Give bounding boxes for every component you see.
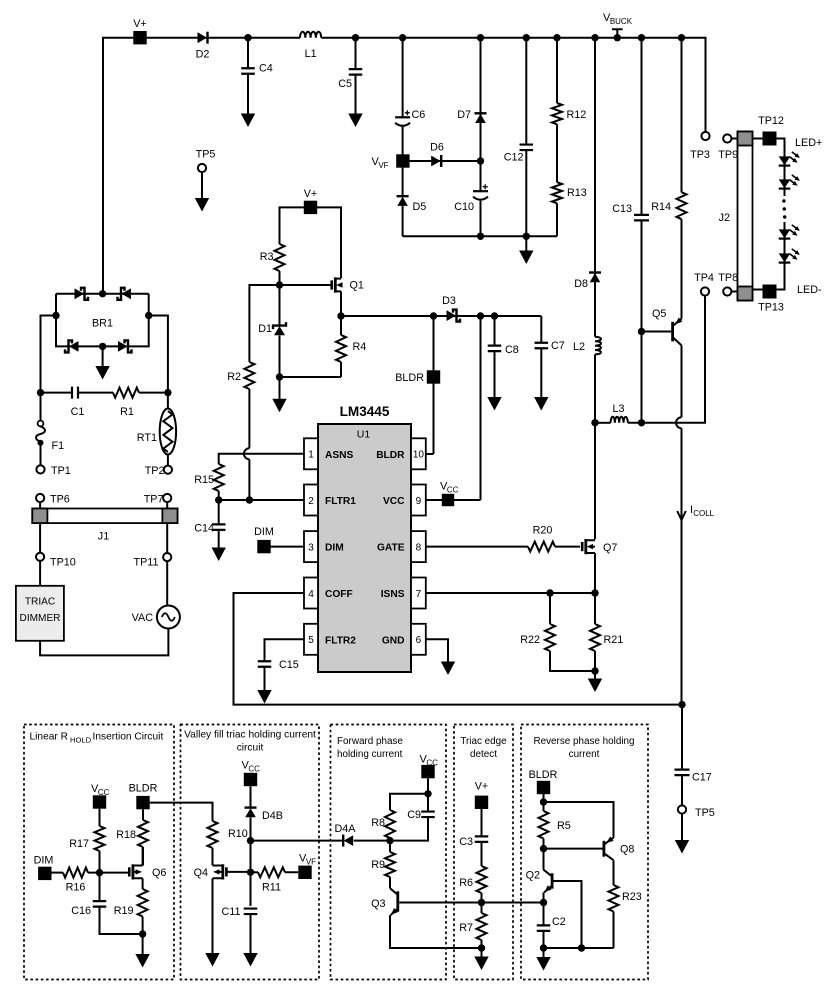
node C4 junction <box>244 34 251 41</box>
ground <box>348 114 362 128</box>
resistor R22 <box>549 593 551 624</box>
node COFF rail junction <box>678 701 685 708</box>
svg-text:C1: C1 <box>71 406 85 418</box>
node ground junction <box>478 944 485 951</box>
wire Q1 gate <box>280 284 332 286</box>
svg-text:TP11: TP11 <box>133 557 158 569</box>
wire GND pin6 <box>426 639 448 661</box>
wire R2 with hop over ASNS wire <box>248 389 250 448</box>
net BLDR <box>537 781 550 794</box>
resistor R2 <box>249 285 279 362</box>
svg-text:DIM: DIM <box>254 526 274 538</box>
svg-text:CC: CC <box>248 764 260 773</box>
node C5 junction <box>352 34 359 41</box>
svg-text:Valley fill triac holding curr: Valley fill triac holding current <box>184 730 316 741</box>
led D102 <box>779 179 791 188</box>
node L3 right junction <box>638 419 645 426</box>
svg-text:R14: R14 <box>651 201 671 213</box>
svg-text:4: 4 <box>308 589 314 600</box>
capacitor C12 <box>525 38 527 251</box>
node BLDR junction <box>430 312 437 319</box>
ground <box>519 251 533 265</box>
resistor R4 <box>340 291 342 335</box>
box Linear RHOLD Insertion Circuit <box>24 725 174 980</box>
svg-text:TP9: TP9 <box>718 149 738 161</box>
svg-text:TP10: TP10 <box>50 557 76 569</box>
test point TP13 <box>763 285 777 299</box>
net VVF <box>396 154 409 167</box>
svg-text:R3: R3 <box>260 251 274 263</box>
capacitor C14 <box>212 524 226 530</box>
svg-text:C4: C4 <box>259 63 273 75</box>
diode D5 <box>397 195 409 197</box>
svg-text:TP12: TP12 <box>758 115 784 127</box>
node Q8 base junction <box>540 845 547 852</box>
wire <box>753 222 785 290</box>
wire <box>753 139 785 197</box>
wire COFF pin4 runner <box>234 593 683 705</box>
resistor R17 <box>99 809 101 826</box>
svg-text:D3: D3 <box>442 295 456 307</box>
svg-text:C16: C16 <box>71 905 91 917</box>
pin box 2 <box>304 485 318 516</box>
capacitor C2 <box>537 925 551 931</box>
wire Q2 base <box>553 881 581 948</box>
diode D8 <box>594 38 596 337</box>
node BLDR junction <box>543 794 545 811</box>
transistor Q3 (NPN) <box>396 891 399 911</box>
wire Q8 base <box>544 848 603 850</box>
svg-text:1: 1 <box>308 450 314 461</box>
wire Q5 collector with hop over L3 wire <box>681 345 683 417</box>
resistor R3 <box>275 244 285 271</box>
ground <box>681 814 683 840</box>
resistor R7 <box>477 913 487 940</box>
svg-text:Q2: Q2 <box>526 870 540 882</box>
thermistor RT1 <box>167 393 169 409</box>
inductor L1 <box>300 32 321 38</box>
svg-text:R1: R1 <box>120 406 134 418</box>
wire Q6 drain <box>142 847 144 866</box>
test point TP7 <box>163 494 171 502</box>
pin box 10 <box>411 438 426 469</box>
wire <box>40 628 168 655</box>
wire GATE pin8 <box>426 546 528 548</box>
svg-text:7: 7 <box>416 589 422 600</box>
resistor R12 <box>553 34 560 41</box>
svg-text:BLDR: BLDR <box>129 783 158 795</box>
svg-text:TP2: TP2 <box>145 465 165 477</box>
wire <box>280 376 342 378</box>
node D1-R4 junction <box>276 373 283 380</box>
node bottom-wire junctions <box>477 233 484 240</box>
ground <box>487 397 501 411</box>
svg-text:6: 6 <box>416 635 422 646</box>
svg-text:holding current: holding current <box>337 749 403 760</box>
test point TP6 <box>36 494 44 502</box>
test point TP3 <box>701 132 709 140</box>
svg-text:Q1: Q1 <box>350 280 364 292</box>
diode D6 <box>410 160 481 162</box>
resistor R13 <box>556 124 558 182</box>
bridge diode top-right <box>122 288 132 299</box>
node R6-R7 junction <box>478 899 485 906</box>
ground <box>201 172 203 198</box>
svg-text:3: 3 <box>308 542 314 553</box>
current arrow ICOLL <box>677 511 686 520</box>
pin box 4 <box>304 578 318 609</box>
svg-text:TP4: TP4 <box>694 272 714 284</box>
svg-text:R21: R21 <box>604 634 624 646</box>
svg-text:D7: D7 <box>457 109 471 121</box>
svg-text:J1: J1 <box>98 531 109 543</box>
resistor R18 <box>142 809 144 820</box>
capacitor C4 <box>247 38 249 114</box>
svg-text:FLTR1: FLTR1 <box>325 496 356 507</box>
node junctions <box>540 944 547 951</box>
ground <box>212 548 226 562</box>
svg-text:TP1: TP1 <box>51 465 71 477</box>
resistor R1 <box>113 388 139 398</box>
wire Q7 source <box>594 553 596 593</box>
wire <box>321 38 705 132</box>
svg-text:C7: C7 <box>551 340 565 352</box>
svg-text:circuit: circuit <box>237 743 264 754</box>
svg-text:TP7: TP7 <box>144 494 164 506</box>
svg-text:TP5: TP5 <box>695 807 715 819</box>
net VCC pin9 <box>426 499 481 501</box>
svg-text:HOLD: HOLD <box>70 736 92 745</box>
capacitor C11 <box>244 909 258 915</box>
wire BLDR to R10 <box>150 803 213 821</box>
diode D3 (schottky) <box>447 310 457 321</box>
svg-text:V+: V+ <box>133 18 147 30</box>
led D101 <box>779 156 791 165</box>
resistor R21 <box>594 593 596 624</box>
net VCC <box>244 773 257 786</box>
box Forward phase holding current <box>331 725 447 980</box>
node BR1 top junction <box>99 290 106 297</box>
test point TP10 <box>36 553 44 561</box>
svg-text:Q6: Q6 <box>152 867 166 879</box>
svg-text:Q5: Q5 <box>652 308 666 320</box>
svg-text:R15: R15 <box>194 474 214 486</box>
node FLTR1 junction <box>215 496 222 503</box>
svg-text:TP3: TP3 <box>690 149 710 161</box>
svg-text:Q3: Q3 <box>371 898 385 910</box>
node R14 junction <box>678 34 685 41</box>
svg-text:CC: CC <box>426 758 438 767</box>
wire ASNS pin1 <box>219 454 304 464</box>
svg-text:R13: R13 <box>567 187 587 199</box>
node Q4 gate junction <box>247 869 254 876</box>
transistor Q5 (PNP) <box>671 322 674 342</box>
net DIM <box>38 867 51 880</box>
svg-text:R16: R16 <box>66 882 86 894</box>
node C13 junction <box>638 34 645 41</box>
wire Q5 base <box>642 331 672 333</box>
node R21-R22 junction <box>591 667 598 674</box>
node R8-R9 junction <box>386 837 393 844</box>
svg-text:C11: C11 <box>221 906 240 918</box>
svg-text:R23: R23 <box>622 891 642 903</box>
capacitor C10 (polarized) <box>473 190 488 192</box>
node C12 junction <box>523 34 530 41</box>
wire Q3 base runner <box>399 902 543 904</box>
svg-text:BLDR: BLDR <box>395 372 424 384</box>
box Triac edge detect <box>454 725 513 980</box>
svg-text:R8: R8 <box>371 817 385 829</box>
svg-text:R11: R11 <box>262 882 281 894</box>
svg-text:CC: CC <box>98 788 110 797</box>
capacitor C15 <box>258 661 272 667</box>
node BR1 left <box>52 312 59 319</box>
svg-text:Reverse phase holding: Reverse phase holding <box>533 736 634 747</box>
svg-text:VF: VF <box>306 857 316 866</box>
pin box 6 <box>411 624 426 655</box>
svg-text:R18: R18 <box>116 829 136 841</box>
transistor Q4 (MOSFET mirrored) <box>225 867 228 876</box>
inductor L2 <box>595 337 601 355</box>
resistor R10 <box>208 821 218 848</box>
svg-text:J2: J2 <box>719 212 730 224</box>
resistor R9 <box>389 841 391 852</box>
resistor R20 <box>528 542 555 552</box>
capacitor C1 <box>41 392 73 394</box>
node ISNS junctions <box>546 589 553 596</box>
net V+ <box>280 207 342 278</box>
svg-text:D5: D5 <box>413 201 427 213</box>
svg-text:DIM: DIM <box>34 855 54 867</box>
capacitor C8 <box>494 316 496 397</box>
svg-text:R4: R4 <box>353 341 367 353</box>
svg-text:F1: F1 <box>52 440 65 452</box>
capacitor C5 <box>355 38 357 114</box>
connector J1 <box>40 502 167 508</box>
svg-text:FLTR2: FLTR2 <box>325 635 356 646</box>
svg-text:C10: C10 <box>454 201 474 213</box>
wire Q4 gate <box>228 871 251 873</box>
svg-text:BLDR: BLDR <box>529 769 558 781</box>
capacitor C3 <box>481 809 483 836</box>
node BR1 bottom junction <box>99 343 106 350</box>
wire <box>250 817 252 906</box>
svg-text:D2: D2 <box>196 49 210 61</box>
node L3 left junction <box>591 419 598 426</box>
svg-text:Linear R: Linear R <box>30 732 69 743</box>
resistor R5 <box>539 811 549 839</box>
test point TP11 <box>163 553 171 561</box>
net BLDR <box>136 796 149 809</box>
wire <box>149 316 168 393</box>
wire <box>681 219 683 319</box>
test point TP4 <box>701 287 709 295</box>
wire FLTR1 pin2 <box>219 499 304 501</box>
capacitor C7 <box>540 316 542 397</box>
svg-text:R7: R7 <box>459 922 473 934</box>
wire Q8 collector <box>613 860 615 885</box>
pin box 3 <box>304 531 318 562</box>
svg-text:GND: GND <box>382 635 405 646</box>
pin box 7 <box>411 578 426 609</box>
fuse F1 <box>40 393 42 421</box>
svg-text:L3: L3 <box>612 403 624 415</box>
svg-text:C13: C13 <box>612 203 632 215</box>
svg-text:BR1: BR1 <box>92 318 113 330</box>
bridge diode top-left <box>75 288 85 299</box>
resistor R23 <box>609 885 619 912</box>
node VCC riser junction <box>477 312 484 319</box>
svg-text:BLDR: BLDR <box>376 450 405 461</box>
svg-text:R9: R9 <box>371 859 385 871</box>
resistor R8 <box>390 794 428 810</box>
svg-text:VF: VF <box>378 161 388 170</box>
svg-text:R2: R2 <box>227 371 241 383</box>
transistor Q2 (NPN) <box>551 873 554 888</box>
wire <box>402 206 404 236</box>
source VAC <box>166 561 168 605</box>
diode D2 <box>198 32 208 43</box>
net BLDR <box>433 316 435 454</box>
test point TP8 <box>723 287 731 295</box>
svg-text:LED-: LED- <box>797 284 822 296</box>
diode D4A <box>344 835 354 846</box>
node D4B junction <box>247 837 254 844</box>
ellipsis dots <box>782 199 785 202</box>
wire to Q8 emitter <box>544 802 614 838</box>
ground <box>588 679 602 693</box>
svg-text:D4A: D4A <box>334 823 356 835</box>
svg-text:Forward phase: Forward phase <box>337 736 403 747</box>
transistor Q6 (MOSFET) <box>128 867 131 876</box>
ground <box>441 662 455 676</box>
wire FLTR2 pin5 <box>265 639 305 661</box>
triac dimmer box <box>39 561 41 586</box>
test point TP12 <box>763 132 777 146</box>
transistor Q1 (N-MOSFET) <box>330 280 333 289</box>
svg-text:ISNS: ISNS <box>381 589 405 600</box>
node R19-C16 junction <box>139 930 146 937</box>
wire Q4 source to ground <box>212 878 214 953</box>
pin box 5 <box>304 624 318 655</box>
test point TP9 <box>723 134 731 142</box>
capacitor C17 <box>681 705 683 806</box>
resistor R16 <box>52 872 64 874</box>
diode D4B <box>250 786 252 807</box>
wire <box>731 138 737 140</box>
svg-text:C3: C3 <box>459 836 473 848</box>
svg-text:DIMMER: DIMMER <box>20 613 61 624</box>
node C8 junction <box>491 312 498 319</box>
svg-text:V+: V+ <box>475 781 489 793</box>
svg-text:8: 8 <box>416 542 422 553</box>
svg-text:Triac edge: Triac edge <box>460 736 507 747</box>
box Reverse phase holding current <box>521 725 648 980</box>
wire Q6 source <box>142 878 144 889</box>
svg-text:C9: C9 <box>407 809 421 821</box>
wire <box>279 336 281 378</box>
svg-text:V+: V+ <box>304 188 318 200</box>
svg-text:C5: C5 <box>338 78 352 90</box>
pin box 1 <box>304 438 318 469</box>
wire pin10 <box>426 453 434 455</box>
resistor R19 <box>138 889 148 917</box>
resistor R14 <box>681 38 683 193</box>
pin box 9 <box>411 485 426 516</box>
wire <box>594 354 596 539</box>
svg-text:LED+: LED+ <box>795 137 822 149</box>
resistor R11 <box>258 867 285 877</box>
transistor Q8 (PNP) <box>603 841 606 857</box>
node BR1 right <box>145 312 152 319</box>
svg-text:10: 10 <box>413 450 425 461</box>
ground <box>241 114 255 128</box>
node VVF-D6 junction <box>477 157 484 164</box>
svg-text:L2: L2 <box>573 341 585 353</box>
ground <box>543 948 545 957</box>
svg-text:R19: R19 <box>114 905 134 917</box>
svg-text:5: 5 <box>308 635 314 646</box>
svg-text:GATE: GATE <box>377 543 405 554</box>
svg-text:C6: C6 <box>412 109 426 121</box>
svg-text:D8: D8 <box>574 278 588 290</box>
node C6 junction <box>399 34 406 41</box>
net VCC <box>421 765 434 778</box>
svg-text:TP5: TP5 <box>196 149 216 161</box>
svg-text:9: 9 <box>416 496 422 507</box>
svg-text:C2: C2 <box>552 916 566 928</box>
svg-text:R5: R5 <box>557 820 571 832</box>
ground <box>279 377 281 399</box>
node R3-D1 junction <box>276 281 283 288</box>
node R1 right junction <box>164 389 171 396</box>
svg-text:D6: D6 <box>430 142 444 154</box>
svg-text:R20: R20 <box>533 525 553 537</box>
wire Q2 emitter <box>543 892 545 925</box>
node Q5 base junction <box>638 328 645 335</box>
wire to D4A <box>251 840 344 842</box>
svg-text:TP6: TP6 <box>50 494 70 506</box>
svg-text:COLL: COLL <box>693 509 714 518</box>
led D104 <box>779 253 791 262</box>
svg-text:U1: U1 <box>357 429 371 441</box>
svg-text:D1: D1 <box>258 323 272 335</box>
capacitor C6 (polarized) <box>402 38 404 197</box>
capacitor C9 <box>427 794 429 812</box>
svg-text:Q4: Q4 <box>194 867 208 879</box>
wire VCC riser <box>480 316 482 500</box>
svg-text:R22: R22 <box>520 634 540 646</box>
wire Q3 emitter <box>390 915 482 948</box>
ground <box>243 953 257 967</box>
net V+ <box>133 31 146 44</box>
svg-text:L1: L1 <box>305 48 317 60</box>
svg-text:Insertion Circuit: Insertion Circuit <box>93 732 164 743</box>
node R16-R17 junction <box>96 869 103 876</box>
node Q1 source junction <box>337 312 344 319</box>
svg-text:Q7: Q7 <box>603 542 617 554</box>
svg-text:BUCK: BUCK <box>610 17 633 26</box>
capacitor C16 <box>99 873 101 902</box>
pin box 8 <box>411 531 426 562</box>
svg-text:DIM: DIM <box>325 543 344 554</box>
svg-text:detect: detect <box>470 749 497 760</box>
node VCC junction <box>427 778 429 794</box>
test point TP5 <box>678 805 686 813</box>
svg-text:R12: R12 <box>567 109 587 121</box>
svg-text:C15: C15 <box>279 659 299 671</box>
svg-text:VCC: VCC <box>383 496 405 507</box>
